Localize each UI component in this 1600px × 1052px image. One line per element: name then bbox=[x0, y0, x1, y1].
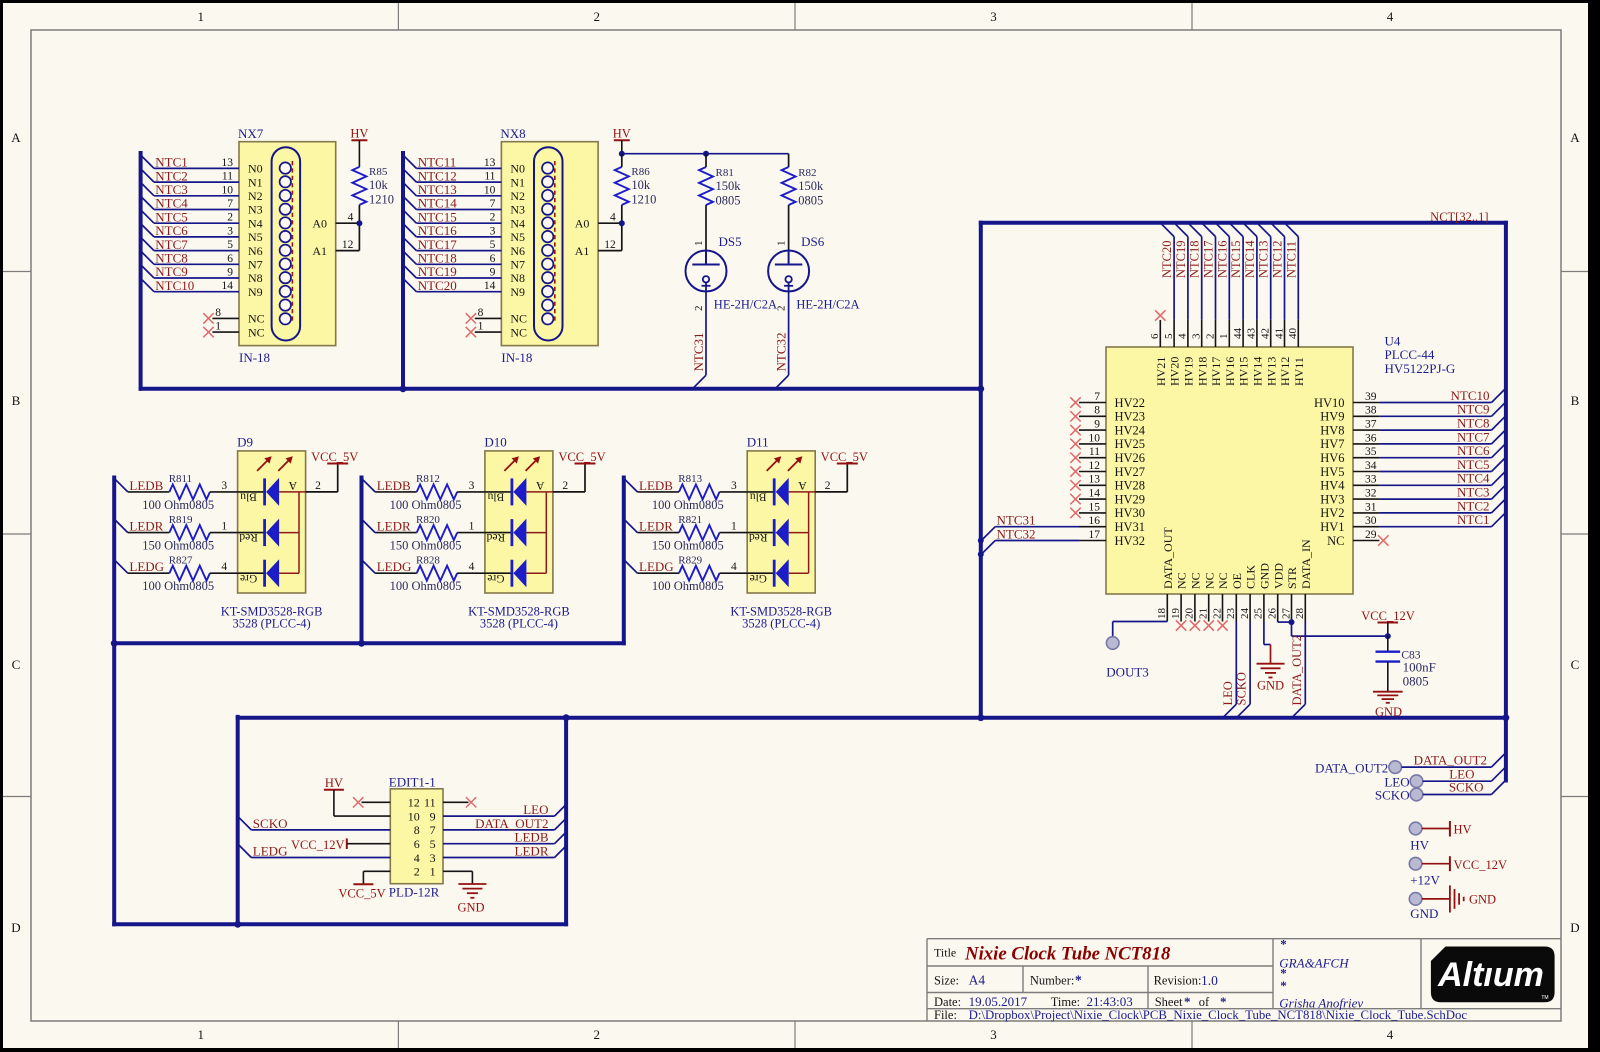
svg-text:B: B bbox=[12, 393, 21, 408]
svg-text:DATA_OUT2: DATA_OUT2 bbox=[475, 816, 548, 831]
svg-text:13: 13 bbox=[1089, 474, 1101, 486]
junction NTC31 / U4 left bus bbox=[978, 538, 984, 544]
svg-text:3: 3 bbox=[731, 480, 737, 492]
junction R86/A0/A1 bbox=[619, 220, 625, 226]
svg-text:GND: GND bbox=[1258, 563, 1272, 589]
svg-text:NTC6: NTC6 bbox=[1457, 443, 1490, 458]
wire net NTC8 to NX7 pin 6 bbox=[141, 251, 239, 266]
svg-text:PLD-12R: PLD-12R bbox=[389, 884, 440, 899]
wire net NTC19 from bus to U4 pin 4 bbox=[1174, 223, 1188, 320]
U4 left pins 7-15 no-ERC crosses bbox=[1070, 397, 1080, 518]
wire net LEDG from bus bbox=[624, 559, 679, 574]
bus vertical at D9 bbox=[112, 478, 116, 925]
resistor R82 150k 0805 bbox=[782, 154, 824, 251]
svg-text:Gre: Gre bbox=[487, 572, 504, 584]
svg-text:+12V: +12V bbox=[1410, 873, 1440, 888]
svg-text:1: 1 bbox=[215, 321, 221, 333]
EDIT1-1 pin 12 no-ERC cross bbox=[353, 797, 390, 807]
svg-text:10: 10 bbox=[408, 809, 420, 823]
svg-text:NC: NC bbox=[1189, 572, 1203, 589]
svg-text:R828: R828 bbox=[416, 554, 440, 566]
bus vertical at D11 bbox=[622, 478, 626, 644]
svg-text:NTC14: NTC14 bbox=[1243, 240, 1257, 278]
svg-text:NTC31: NTC31 bbox=[997, 513, 1036, 528]
svg-text:5: 5 bbox=[490, 239, 496, 251]
wire net LEO from EDIT1-1 to right bus bbox=[443, 802, 566, 817]
svg-text:100 Ohm0805: 100 Ohm0805 bbox=[142, 498, 214, 512]
svg-text:D:\Dropbox\Project\Nixie_Clock: D:\Dropbox\Project\Nixie_Clock\PCB_Nixie… bbox=[969, 1008, 1468, 1022]
wire net LEDG from bus to EDIT1-1 pin 4 bbox=[238, 844, 391, 859]
wire net NTC14 to NX8 pin 7 bbox=[403, 196, 501, 211]
svg-text:LEO: LEO bbox=[523, 802, 548, 817]
bus U4 right vertical bbox=[1504, 223, 1508, 781]
svg-text:2: 2 bbox=[315, 480, 321, 492]
wire net NTC10 to NX7 pin 14 bbox=[141, 278, 239, 293]
svg-text:LEDB: LEDB bbox=[515, 830, 549, 845]
svg-text:9: 9 bbox=[227, 267, 233, 279]
svg-text:3: 3 bbox=[1191, 333, 1203, 339]
svg-text:R821: R821 bbox=[678, 514, 702, 526]
svg-text:42: 42 bbox=[1260, 328, 1272, 339]
svg-text:NTC2: NTC2 bbox=[1457, 498, 1490, 513]
svg-text:VDD: VDD bbox=[1271, 563, 1285, 589]
wire net LEDR from EDIT1-1 to right bus bbox=[443, 844, 566, 859]
title block bbox=[927, 939, 1561, 1021]
Altium logo bbox=[1431, 947, 1555, 1003]
svg-text:0805: 0805 bbox=[716, 194, 741, 208]
junction EDIT left bus / bottom bus bbox=[234, 921, 241, 928]
svg-text:*: * bbox=[1280, 937, 1287, 952]
svg-text:HV8: HV8 bbox=[1320, 423, 1344, 437]
svg-text:NC: NC bbox=[1327, 534, 1344, 548]
svg-text:N6: N6 bbox=[248, 244, 263, 258]
port GND with rotated GND power symbol bbox=[1409, 885, 1496, 920]
svg-text:DS5: DS5 bbox=[719, 234, 742, 249]
U4 pin 6 no-ERC cross bbox=[1155, 310, 1165, 320]
NX7 NC pin 1 with no-ERC cross bbox=[203, 321, 239, 338]
svg-text:17: 17 bbox=[1089, 529, 1101, 541]
svg-text:6: 6 bbox=[1149, 333, 1161, 339]
svg-text:GND: GND bbox=[1375, 705, 1402, 719]
resistor R819 150 Ohm0805 bbox=[142, 514, 237, 553]
svg-text:R85: R85 bbox=[369, 166, 388, 178]
wire net NTC8 from U4 pin 37 to right bus bbox=[1379, 416, 1505, 431]
svg-text:N2: N2 bbox=[510, 189, 525, 203]
bus nixie bottom horizontal bbox=[141, 387, 981, 391]
svg-text:Title: Title bbox=[934, 946, 956, 960]
RGB LED D9 KT-SMD3528-RGB bbox=[221, 434, 323, 630]
svg-text:HV: HV bbox=[1410, 837, 1429, 852]
svg-text:R819: R819 bbox=[169, 514, 193, 526]
svg-text:A1: A1 bbox=[575, 244, 590, 258]
svg-text:D11: D11 bbox=[747, 434, 769, 449]
svg-text:38: 38 bbox=[1365, 405, 1377, 417]
bus EDIT left vertical bbox=[236, 717, 240, 924]
nixie tube socket NX8 bbox=[500, 126, 598, 365]
svg-text:30: 30 bbox=[1365, 515, 1377, 527]
svg-text:100 Ohm0805: 100 Ohm0805 bbox=[652, 498, 724, 512]
svg-text:15: 15 bbox=[1089, 501, 1101, 513]
svg-text:NX7: NX7 bbox=[238, 126, 264, 141]
wire net NTC2 from U4 pin 31 to right bus bbox=[1379, 498, 1505, 513]
svg-text:6: 6 bbox=[414, 837, 420, 851]
HV power symbol above R86 bbox=[613, 126, 631, 153]
svg-text:HV10: HV10 bbox=[1314, 396, 1345, 410]
svg-text:R812: R812 bbox=[416, 473, 440, 485]
svg-text:2: 2 bbox=[490, 212, 496, 224]
wire STR junction to VCC_12V node bbox=[1292, 622, 1388, 636]
svg-text:2: 2 bbox=[414, 865, 420, 879]
svg-text:9: 9 bbox=[430, 809, 436, 823]
svg-text:NTC10: NTC10 bbox=[155, 278, 194, 293]
svg-text:Altıum: Altıum bbox=[1437, 956, 1544, 994]
svg-text:N6: N6 bbox=[510, 244, 525, 258]
svg-text:HV32: HV32 bbox=[1115, 534, 1146, 548]
svg-text:4: 4 bbox=[221, 561, 227, 573]
svg-text:NTC17: NTC17 bbox=[1202, 241, 1216, 279]
svg-text:DATA_OUT2: DATA_OUT2 bbox=[1414, 752, 1487, 767]
wire net LEDR from bus bbox=[362, 519, 417, 534]
svg-text:A: A bbox=[11, 130, 21, 145]
bus LED bottom horizontal bbox=[114, 641, 624, 645]
svg-text:A: A bbox=[288, 479, 297, 493]
svg-text:NTC16: NTC16 bbox=[1215, 241, 1229, 279]
svg-text:1210: 1210 bbox=[369, 193, 394, 207]
svg-text:NTC10: NTC10 bbox=[1451, 388, 1490, 403]
svg-text:2: 2 bbox=[593, 9, 600, 24]
svg-text:0805: 0805 bbox=[798, 194, 823, 208]
triode DS5 HE-2H/C2A bbox=[686, 234, 778, 311]
svg-text:R86: R86 bbox=[631, 166, 650, 178]
svg-text:N0: N0 bbox=[510, 162, 525, 176]
port +12V with VCC_12V power bar bbox=[1409, 856, 1507, 887]
RGB LED D10 KT-SMD3528-RGB bbox=[468, 434, 570, 630]
svg-text:DS6: DS6 bbox=[801, 234, 825, 249]
svg-text:NTC18: NTC18 bbox=[1188, 241, 1202, 279]
svg-text:10k: 10k bbox=[369, 178, 389, 192]
svg-text:4: 4 bbox=[469, 561, 475, 573]
wire net DATA_OUT2 from EDIT1-1 to right bus bbox=[443, 816, 566, 831]
svg-text:Revision:: Revision: bbox=[1154, 973, 1202, 987]
svg-text:8: 8 bbox=[414, 823, 420, 837]
wire net NTC7 to NX7 pin 5 bbox=[141, 237, 239, 252]
resistor R813 100 Ohm0805 bbox=[652, 473, 747, 512]
svg-text:B: B bbox=[1571, 393, 1580, 408]
U4 left pin names bbox=[1115, 396, 1146, 548]
svg-text:12: 12 bbox=[604, 239, 616, 251]
svg-text:DATA_OUT: DATA_OUT bbox=[1161, 527, 1175, 589]
svg-text:N5: N5 bbox=[510, 230, 525, 244]
svg-text:4: 4 bbox=[1177, 333, 1189, 339]
svg-text:1: 1 bbox=[469, 521, 475, 533]
resistor R85 10k 1210 bbox=[352, 166, 394, 223]
svg-text:4: 4 bbox=[1387, 1027, 1394, 1042]
bus U4 top horizontal bbox=[981, 221, 1506, 225]
bus NX8 left vertical bbox=[401, 153, 405, 389]
svg-text:3: 3 bbox=[990, 1027, 997, 1042]
svg-text:NTC13: NTC13 bbox=[1257, 241, 1271, 279]
U4 bottom pin stubs bbox=[1167, 594, 1305, 622]
svg-text:R81: R81 bbox=[716, 167, 734, 179]
resistor R86 10k 1210 bbox=[615, 154, 657, 224]
svg-text:11: 11 bbox=[424, 796, 436, 810]
svg-text:HV11: HV11 bbox=[1292, 357, 1306, 386]
svg-text:4: 4 bbox=[731, 561, 737, 573]
svg-text:NTC15: NTC15 bbox=[1229, 241, 1243, 279]
svg-text:18: 18 bbox=[1156, 608, 1168, 620]
svg-text:C: C bbox=[1571, 657, 1580, 672]
wire net NTC31 from DS5 to bus bbox=[691, 292, 706, 389]
svg-text:37: 37 bbox=[1365, 419, 1377, 431]
svg-text:7: 7 bbox=[1094, 391, 1100, 403]
svg-text:LEDR: LEDR bbox=[639, 519, 673, 534]
svg-text:PLCC-44: PLCC-44 bbox=[1385, 347, 1435, 362]
svg-text:25: 25 bbox=[1253, 608, 1265, 620]
svg-text:100 Ohm0805: 100 Ohm0805 bbox=[390, 579, 462, 593]
U4 right pin names bbox=[1314, 396, 1345, 548]
svg-text:29: 29 bbox=[1365, 529, 1377, 541]
svg-text:LEDR: LEDR bbox=[515, 844, 549, 859]
svg-text:A: A bbox=[1570, 130, 1580, 145]
svg-text:1: 1 bbox=[1218, 334, 1230, 340]
wire net NTC18 to NX8 pin 6 bbox=[403, 251, 501, 266]
svg-text:2: 2 bbox=[1204, 334, 1216, 340]
wire net NTC16 from bus to U4 pin 1 bbox=[1215, 223, 1229, 320]
svg-text:HV26: HV26 bbox=[1115, 451, 1146, 465]
nixie tube socket NX7 bbox=[238, 126, 336, 365]
svg-text:A0: A0 bbox=[312, 216, 327, 230]
triode DS6 HE-2H/C2A bbox=[768, 234, 860, 311]
svg-text:3: 3 bbox=[990, 9, 997, 24]
svg-text:HV: HV bbox=[1454, 823, 1472, 837]
svg-text:N5: N5 bbox=[248, 230, 263, 244]
wire net NTC5 from U4 pin 34 to right bus bbox=[1379, 457, 1505, 472]
wire net NTC13 from bus to U4 pin 42 bbox=[1257, 223, 1271, 320]
svg-text:22: 22 bbox=[1211, 608, 1223, 619]
svg-text:HV28: HV28 bbox=[1115, 479, 1146, 493]
svg-text:Blu: Blu bbox=[487, 491, 504, 503]
bus vertical at D10 bbox=[360, 478, 364, 644]
svg-text:6: 6 bbox=[227, 253, 233, 265]
wire net NTC10 from U4 pin 39 to right bus bbox=[1379, 388, 1505, 403]
svg-text:8: 8 bbox=[1094, 405, 1100, 417]
svg-text:9: 9 bbox=[490, 267, 496, 279]
svg-text:3: 3 bbox=[430, 851, 436, 865]
svg-text:LEDG: LEDG bbox=[253, 844, 288, 859]
svg-text:LEDB: LEDB bbox=[129, 478, 163, 493]
svg-text:44: 44 bbox=[1232, 328, 1244, 340]
wire net LEDB from EDIT1-1 to right bus bbox=[443, 830, 566, 845]
RGB LED D11 KT-SMD3528-RGB bbox=[730, 434, 832, 630]
svg-text:GND: GND bbox=[1257, 679, 1284, 693]
svg-text:8: 8 bbox=[478, 307, 484, 319]
svg-text:4: 4 bbox=[348, 212, 354, 224]
svg-text:LEDR: LEDR bbox=[377, 519, 411, 534]
junction NTC32 / U4 left bus bbox=[978, 551, 984, 557]
svg-text:1.0: 1.0 bbox=[1201, 973, 1218, 988]
svg-text:NX8: NX8 bbox=[500, 126, 525, 141]
EDIT1-1 pin 11 no-ERC cross bbox=[443, 797, 476, 807]
resistor R820 150 Ohm0805 bbox=[390, 514, 485, 553]
svg-text:SCKO: SCKO bbox=[1449, 780, 1484, 795]
svg-text:NTC9: NTC9 bbox=[1457, 402, 1490, 417]
wire net NTC6 from U4 pin 35 to right bus bbox=[1379, 443, 1505, 458]
wire net LEDR from bus bbox=[114, 519, 169, 534]
svg-text:HV27: HV27 bbox=[1115, 465, 1146, 479]
svg-text:HV25: HV25 bbox=[1115, 437, 1146, 451]
svg-text:N0: N0 bbox=[248, 162, 263, 176]
svg-text:STR: STR bbox=[1285, 567, 1299, 589]
svg-text:HV22: HV22 bbox=[1115, 396, 1146, 410]
wire net NTC17 from bus to U4 pin 2 bbox=[1202, 223, 1216, 320]
U4 right pin stubs bbox=[1353, 403, 1379, 541]
svg-text:21:43:03: 21:43:03 bbox=[1087, 994, 1133, 1009]
svg-text:EDIT1-1: EDIT1-1 bbox=[389, 775, 436, 790]
svg-text:Date:: Date: bbox=[934, 995, 961, 1009]
VCC_12V power symbol at C83 bbox=[1361, 609, 1414, 636]
svg-text:N4: N4 bbox=[248, 216, 263, 230]
svg-text:LEDB: LEDB bbox=[377, 478, 411, 493]
junction HV/R81 bbox=[703, 151, 709, 157]
svg-text:NTC32: NTC32 bbox=[773, 333, 788, 372]
svg-text:26: 26 bbox=[1267, 608, 1279, 620]
svg-text:*: * bbox=[1075, 972, 1082, 987]
svg-text:HV: HV bbox=[325, 776, 343, 790]
svg-text:32: 32 bbox=[1365, 488, 1377, 500]
wire net NTC2 to NX7 pin 11 bbox=[141, 168, 239, 183]
svg-text:NTC3: NTC3 bbox=[1457, 485, 1490, 500]
GND power symbol at U4 pin 25 bbox=[1257, 622, 1285, 693]
svg-text:D9: D9 bbox=[237, 434, 253, 449]
svg-text:5: 5 bbox=[1163, 333, 1175, 339]
wire net NTC3 from U4 pin 32 to right bus bbox=[1379, 485, 1505, 500]
svg-text:N4: N4 bbox=[510, 216, 525, 230]
svg-text:A4: A4 bbox=[969, 972, 986, 987]
svg-text:1: 1 bbox=[478, 321, 484, 333]
bus EDIT bottom horizontal bbox=[114, 922, 566, 926]
wire net NTC15 from bus to U4 pin 44 bbox=[1229, 223, 1243, 320]
svg-text:VCC_12V: VCC_12V bbox=[291, 838, 344, 852]
wire NX7 A0 pin 4 to resistor junction bbox=[336, 212, 360, 224]
wire U4 pin 26 VDD to pin 27 junction bbox=[1278, 621, 1292, 624]
svg-text:N9: N9 bbox=[510, 285, 525, 299]
svg-text:TM: TM bbox=[1541, 995, 1548, 1001]
svg-text:5: 5 bbox=[430, 837, 436, 851]
svg-text:Gre: Gre bbox=[750, 572, 767, 584]
svg-text:DATA_OUT2: DATA_OUT2 bbox=[1290, 635, 1304, 706]
svg-text:NTC31: NTC31 bbox=[691, 333, 706, 372]
svg-text:Time:: Time: bbox=[1051, 995, 1080, 1009]
svg-text:HV21: HV21 bbox=[1154, 357, 1168, 386]
svg-text:150k: 150k bbox=[716, 179, 742, 193]
svg-text:D: D bbox=[11, 920, 20, 935]
svg-text:LEDR: LEDR bbox=[129, 519, 163, 534]
bus EDIT right vertical bbox=[564, 718, 568, 925]
svg-text:SCKO: SCKO bbox=[1375, 788, 1410, 803]
svg-text:Blu: Blu bbox=[750, 491, 767, 503]
svg-text:8: 8 bbox=[215, 307, 221, 319]
svg-text:NTC20: NTC20 bbox=[418, 278, 457, 293]
wire NX7 A1 pin 12 up to A0 junction bbox=[336, 223, 360, 251]
svg-text:HV5: HV5 bbox=[1320, 465, 1344, 479]
port DOUT3 bbox=[1106, 637, 1149, 680]
svg-text:13: 13 bbox=[222, 157, 234, 169]
svg-text:DOUT3: DOUT3 bbox=[1106, 664, 1149, 679]
svg-text:N2: N2 bbox=[248, 189, 263, 203]
wire net NTC4 to NX7 pin 7 bbox=[141, 196, 239, 211]
svg-text:*: * bbox=[1280, 978, 1287, 993]
svg-text:R82: R82 bbox=[798, 167, 816, 179]
capacitor C83 100nF 0805 bbox=[1376, 636, 1436, 692]
svg-text:2: 2 bbox=[593, 1027, 600, 1042]
resistor R821 150 Ohm0805 bbox=[652, 514, 747, 553]
svg-text:40: 40 bbox=[1287, 328, 1299, 340]
svg-text:2: 2 bbox=[825, 480, 831, 492]
svg-text:GRA&AFCH: GRA&AFCH bbox=[1279, 956, 1349, 971]
svg-text:33: 33 bbox=[1365, 474, 1377, 486]
NX7 NC pin 8 with no-ERC cross bbox=[203, 307, 239, 324]
svg-text:3528 (PLCC-4): 3528 (PLCC-4) bbox=[742, 616, 820, 630]
wire HV rail to R81 R82 bbox=[622, 153, 789, 155]
junction U4 left bus / main bus bbox=[977, 714, 984, 721]
svg-text:VCC_5V: VCC_5V bbox=[311, 450, 358, 464]
svg-text:IN-18: IN-18 bbox=[239, 350, 270, 365]
svg-text:12: 12 bbox=[408, 796, 420, 810]
svg-text:NTC20: NTC20 bbox=[1160, 241, 1174, 279]
svg-text:36: 36 bbox=[1365, 432, 1377, 444]
svg-text:21: 21 bbox=[1198, 608, 1210, 619]
wire net NTC19 to NX8 pin 9 bbox=[403, 264, 501, 279]
svg-text:VCC_5V: VCC_5V bbox=[821, 450, 868, 464]
svg-text:N9: N9 bbox=[248, 285, 263, 299]
svg-text:HV2: HV2 bbox=[1320, 506, 1344, 520]
svg-text:19: 19 bbox=[1170, 608, 1182, 620]
bus NX7 left vertical bbox=[139, 153, 143, 389]
svg-text:HV5122PJ-G: HV5122PJ-G bbox=[1385, 361, 1456, 376]
NX8 NC pin 1 with no-ERC cross bbox=[466, 321, 502, 338]
svg-text:43: 43 bbox=[1246, 328, 1258, 340]
svg-text:DATA_OUT2: DATA_OUT2 bbox=[1315, 760, 1388, 775]
svg-text:Red: Red bbox=[486, 531, 505, 543]
junction HV/R86 bbox=[619, 151, 625, 157]
U4 pins 19-22 no-ERC crosses bbox=[1176, 620, 1228, 630]
resistor R828 100 Ohm0805 bbox=[390, 554, 485, 593]
svg-text:HV6: HV6 bbox=[1320, 451, 1344, 465]
wire net NTC17 to NX8 pin 5 bbox=[403, 237, 501, 252]
svg-text:10: 10 bbox=[484, 184, 496, 196]
wire net NTC32 from bus to U4 pin 17 bbox=[981, 526, 1079, 554]
svg-text:File:: File: bbox=[934, 1008, 957, 1022]
title block texts bbox=[934, 937, 1467, 1023]
wire net NTC18 from bus to U4 pin 3 bbox=[1188, 223, 1202, 320]
junction bottom bus / U4 left bus bbox=[977, 385, 984, 392]
wire net LEDG from bus bbox=[114, 559, 169, 574]
svg-text:2: 2 bbox=[227, 212, 233, 224]
svg-text:HV19: HV19 bbox=[1182, 357, 1196, 386]
svg-text:5: 5 bbox=[227, 239, 233, 251]
svg-text:NC: NC bbox=[1202, 572, 1216, 589]
svg-text:Number:: Number: bbox=[1030, 973, 1074, 987]
svg-text:Red: Red bbox=[749, 531, 768, 543]
resistor R812 100 Ohm0805 bbox=[390, 473, 485, 512]
svg-text:HV24: HV24 bbox=[1115, 423, 1146, 437]
junction D10 bus / LED bus bbox=[358, 640, 365, 647]
svg-text:14: 14 bbox=[222, 280, 234, 292]
svg-text:HV13: HV13 bbox=[1264, 357, 1278, 386]
wire net NTC4 from U4 pin 33 to right bus bbox=[1379, 471, 1505, 486]
U4 top pin numbers bbox=[1149, 328, 1299, 340]
wire NX8 A0 pin 4 to resistor junction bbox=[598, 212, 622, 224]
